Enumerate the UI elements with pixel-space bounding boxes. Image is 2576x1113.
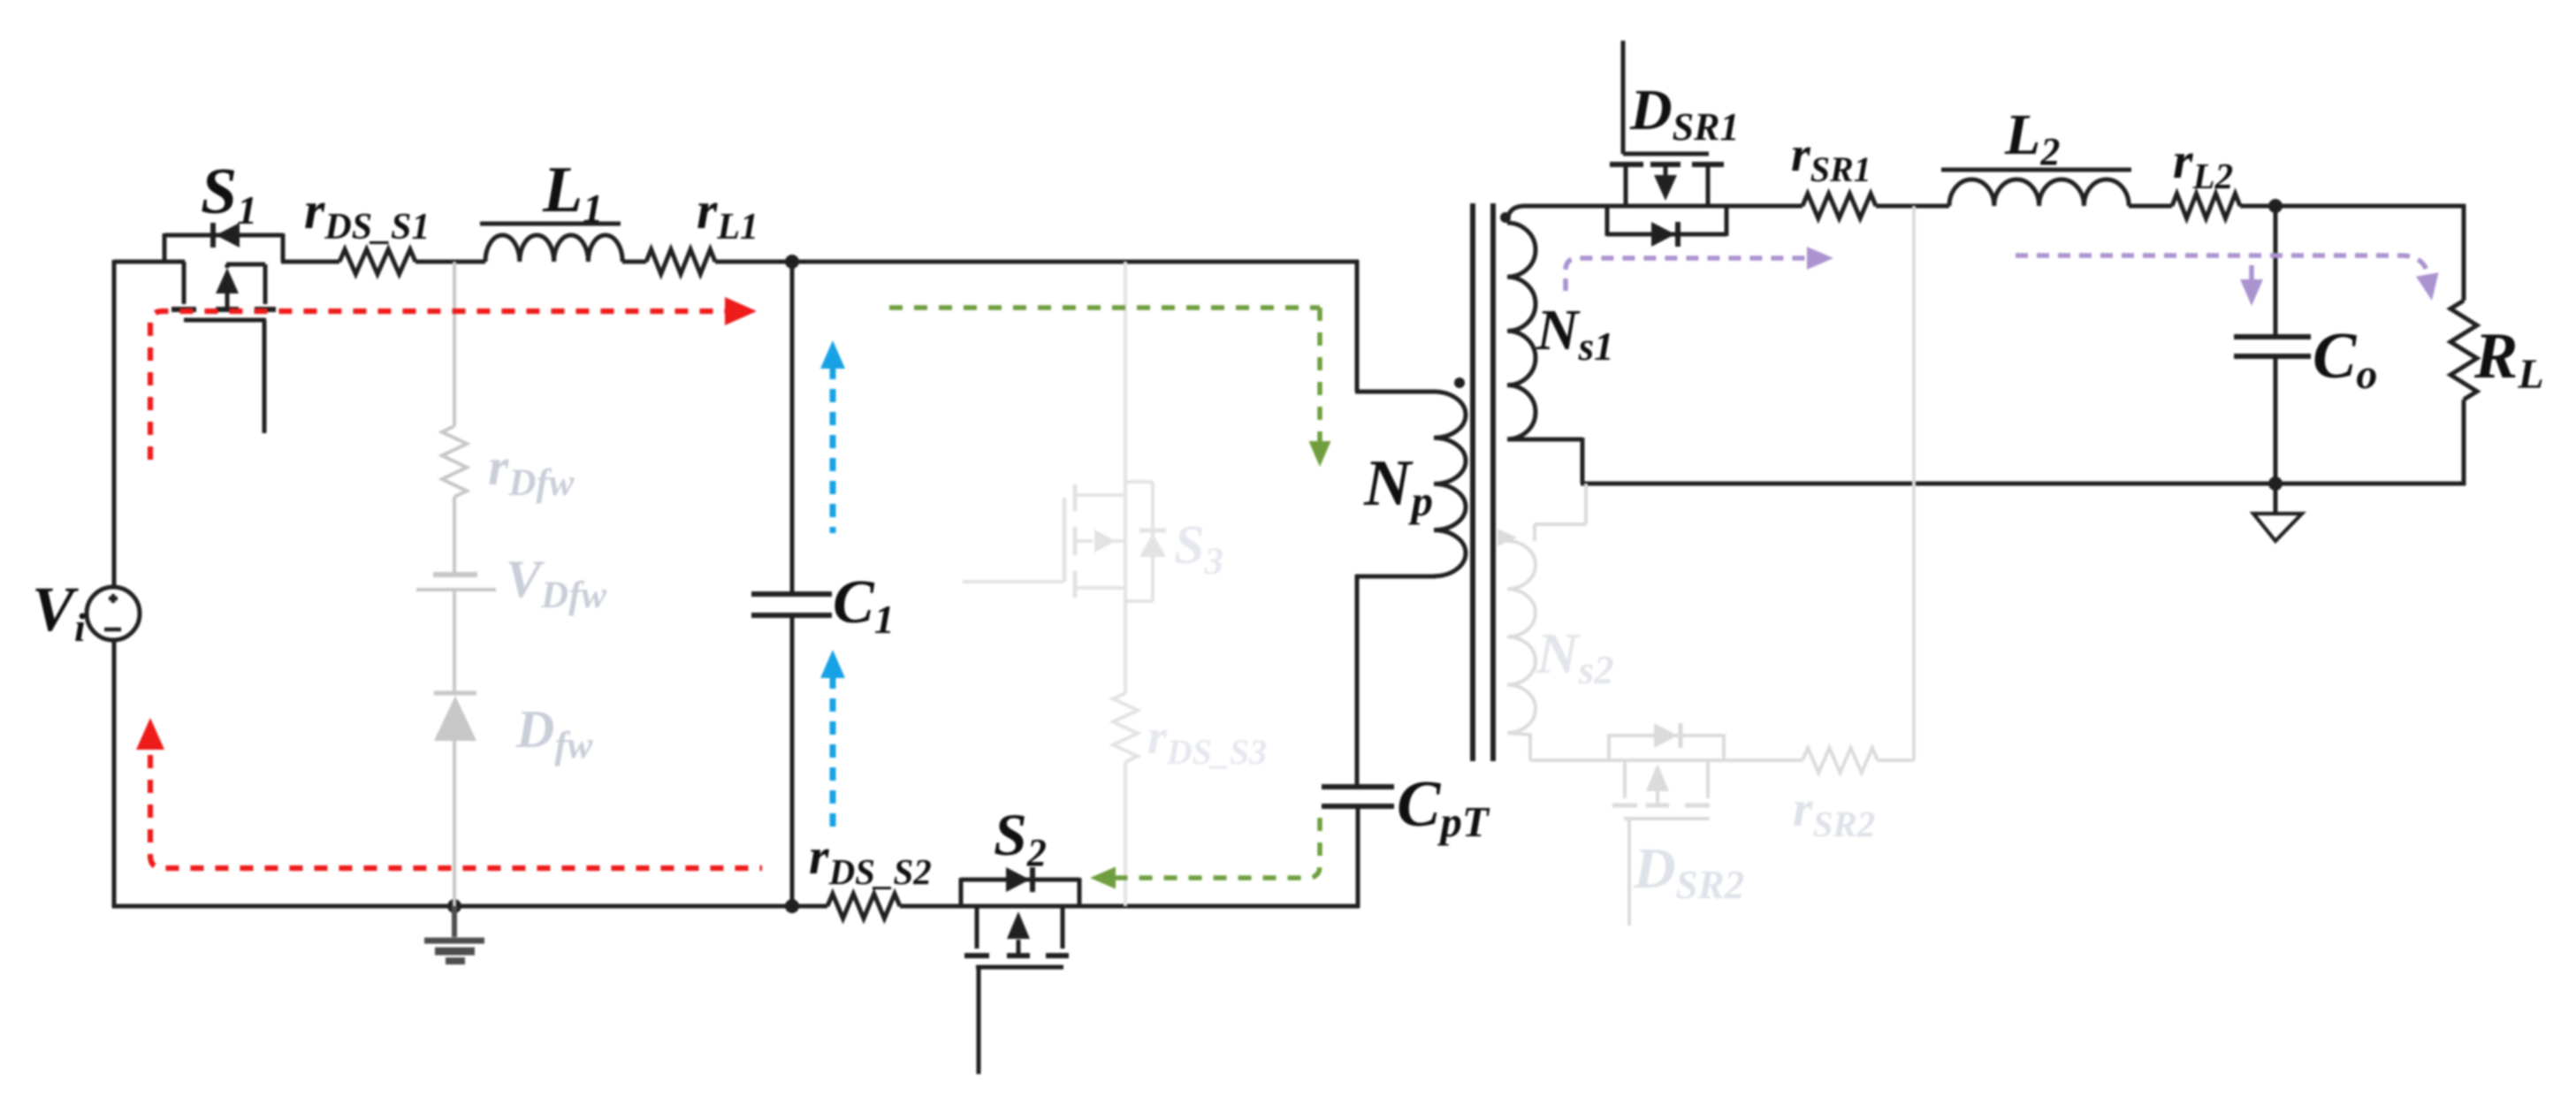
svg-text:Dfw: Dfw — [515, 700, 593, 766]
svg-text:S3: S3 — [1174, 515, 1223, 583]
svg-text:rL1: rL1 — [697, 181, 758, 248]
svg-text:Ns2: Ns2 — [1536, 621, 1614, 692]
svg-text:rDS_S1: rDS_S1 — [304, 181, 430, 248]
svg-text:Vi: Vi — [32, 574, 86, 650]
svg-text:RL: RL — [2473, 320, 2544, 398]
svg-text:Ns1: Ns1 — [1536, 298, 1614, 369]
svg-text:L1: L1 — [542, 154, 603, 231]
svg-text:S1: S1 — [201, 156, 257, 233]
svg-text:rSR1: rSR1 — [1791, 127, 1871, 189]
svg-text:rDS_S2: rDS_S2 — [809, 827, 932, 892]
svg-text:rDfw: rDfw — [488, 438, 575, 504]
svg-text:DSR2: DSR2 — [1633, 836, 1744, 907]
svg-text:L2: L2 — [2004, 103, 2060, 173]
svg-text:rL2: rL2 — [2173, 132, 2233, 196]
svg-text:S2: S2 — [994, 801, 1047, 874]
svg-text:rDS_S3: rDS_S3 — [1147, 710, 1267, 772]
svg-text:C1: C1 — [833, 568, 895, 642]
svg-text:VDfw: VDfw — [506, 550, 606, 616]
svg-text:DSR1: DSR1 — [1629, 78, 1740, 149]
svg-text:Np: Np — [1363, 447, 1433, 525]
svg-text:CpT: CpT — [1397, 768, 1490, 846]
svg-text:Co: Co — [2313, 320, 2377, 398]
svg-text:rSR2: rSR2 — [1793, 780, 1875, 844]
